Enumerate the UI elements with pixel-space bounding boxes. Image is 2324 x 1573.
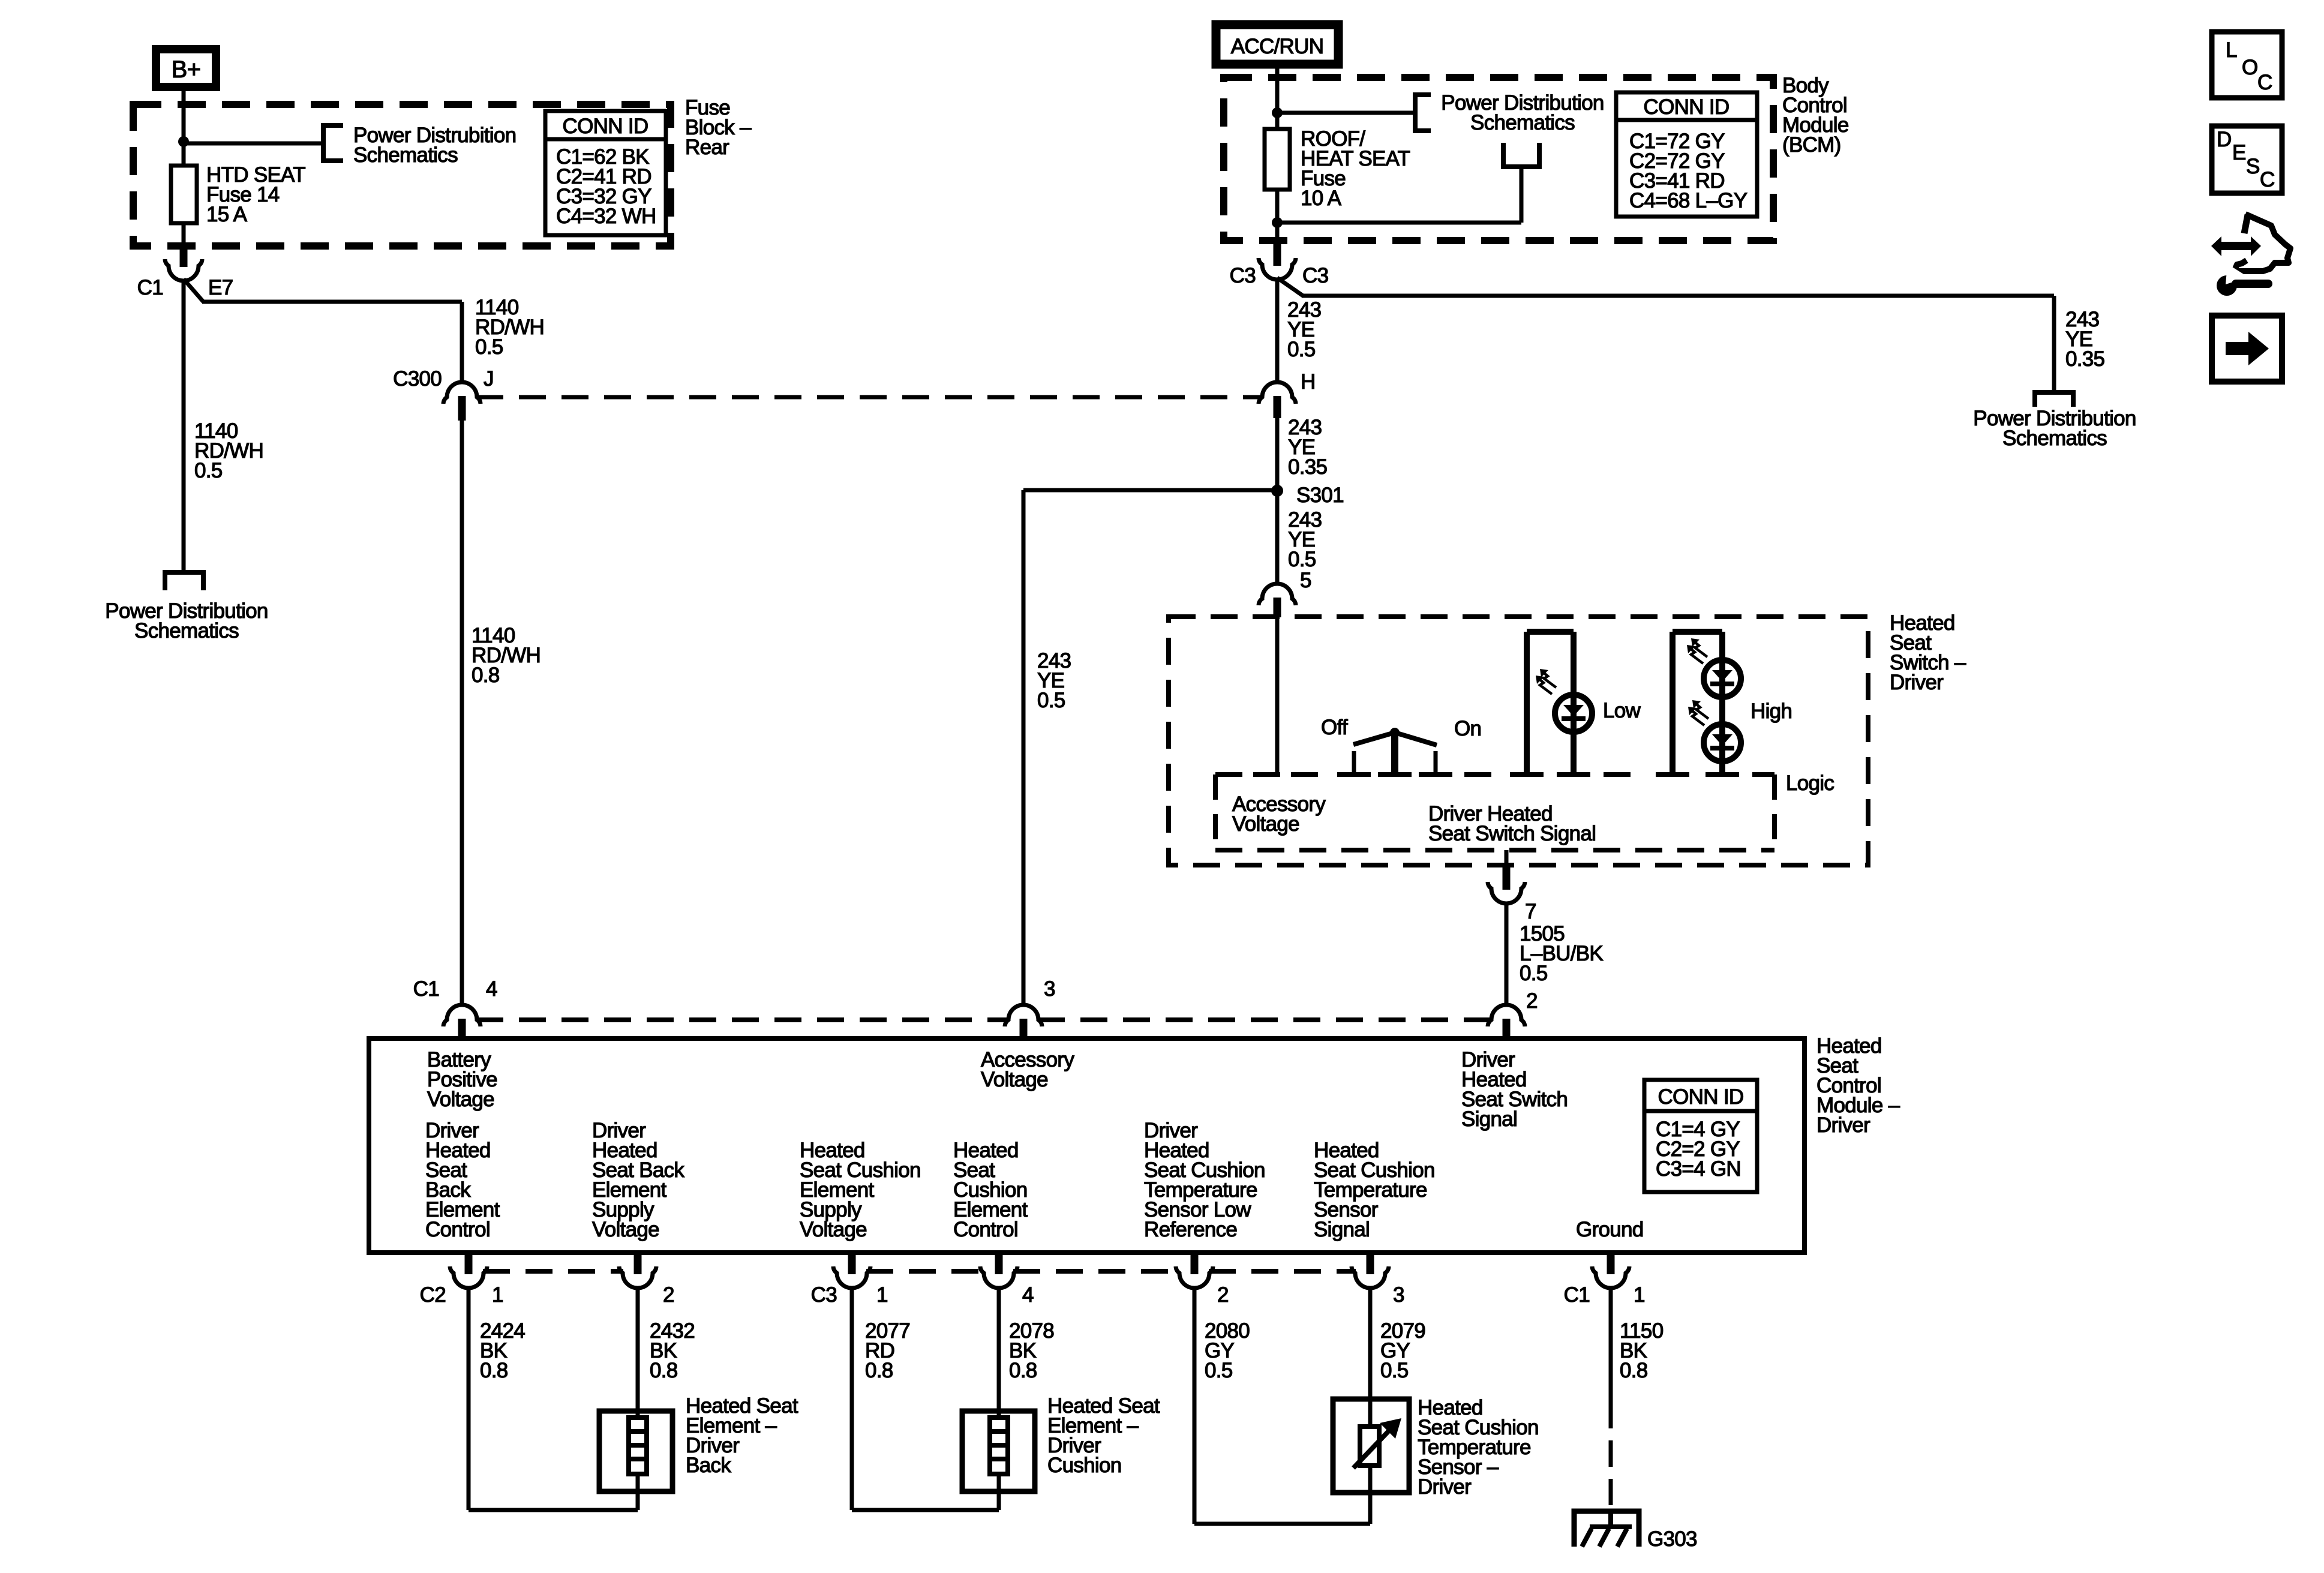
svg-text:5: 5 [1300,569,1311,592]
svg-text:4: 4 [486,977,497,1001]
svg-text:E7: E7 [208,276,233,299]
svg-text:C3: C3 [1302,264,1328,287]
svg-text:2: 2 [663,1283,674,1307]
svg-text:Logic: Logic [1786,772,1834,795]
svg-text:G303: G303 [1647,1527,1697,1551]
svg-text:1: 1 [1634,1283,1645,1307]
svg-text:CONN ID: CONN ID [1658,1085,1744,1109]
svg-text:C1: C1 [1564,1283,1590,1307]
svg-text:Low: Low [1603,699,1641,722]
svg-text:2: 2 [1217,1283,1229,1307]
svg-text:C3=4 GN: C3=4 GN [1656,1157,1741,1181]
svg-text:L: L [2226,38,2237,62]
svg-text:7: 7 [1525,900,1536,923]
svg-text:E: E [2232,141,2246,164]
svg-text:B+: B+ [172,56,201,83]
svg-text:C: C [2260,168,2275,191]
svg-text:O: O [2242,56,2258,79]
svg-text:S: S [2246,155,2260,178]
svg-text:CONN ID: CONN ID [563,115,648,138]
svg-text:4: 4 [1022,1283,1034,1307]
svg-text:C2: C2 [420,1283,446,1307]
svg-text:ACC/RUN: ACC/RUN [1231,35,1324,58]
svg-text:J: J [484,367,494,391]
svg-text:C4=68 L–GY: C4=68 L–GY [1629,189,1747,212]
svg-text:Off: Off [1321,716,1348,739]
svg-text:1: 1 [876,1283,888,1307]
svg-text:BatteryPositiveVoltage: BatteryPositiveVoltage [427,1048,497,1111]
svg-text:C1: C1 [137,276,163,299]
svg-text:1: 1 [492,1283,503,1307]
svg-text:HeatedSeatCushionElementContro: HeatedSeatCushionElementControl [953,1139,1028,1241]
svg-text:C: C [2257,71,2272,94]
svg-text:C1: C1 [413,977,439,1001]
svg-text:C4=32 WH: C4=32 WH [556,205,656,228]
svg-text:3: 3 [1393,1283,1404,1307]
svg-text:Ground: Ground [1576,1218,1644,1241]
svg-text:High: High [1750,700,1792,723]
svg-text:3: 3 [1044,977,1055,1001]
svg-text:C300: C300 [393,367,442,391]
svg-text:H: H [1301,370,1316,394]
svg-text:2: 2 [1526,989,1538,1013]
svg-text:C3: C3 [811,1283,837,1307]
svg-text:D: D [2217,128,2232,151]
svg-text:On: On [1454,717,1481,740]
svg-text:S301: S301 [1296,484,1344,507]
svg-text:CONN ID: CONN ID [1644,95,1730,119]
svg-text:C3: C3 [1230,264,1256,287]
